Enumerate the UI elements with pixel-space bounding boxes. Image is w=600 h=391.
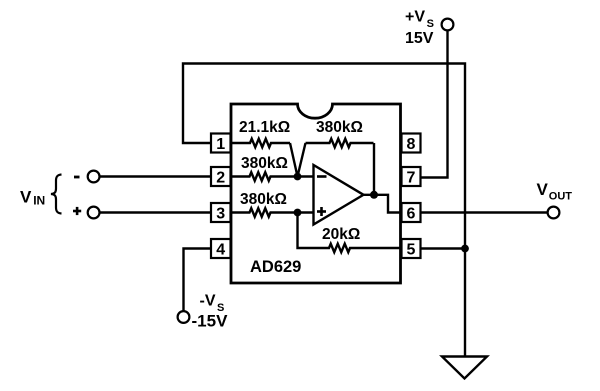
resistor 20k to pin 5 [298,213,402,253]
svg-text:IN: IN [33,193,45,207]
svg-text:3: 3 [216,205,225,222]
wire: pin 5 to ground rail [421,247,466,249]
resistor 21.1k from pin 1 [230,139,290,147]
svg-text:-15V: -15V [192,312,229,331]
pin 1 [211,134,231,153]
svg-text:4: 4 [216,241,225,258]
svg-text:V: V [20,187,32,206]
ground [442,357,487,379]
label +Vs 15V [405,9,434,47]
label Vout [537,180,573,203]
svg-text:20kΩ: 20kΩ [322,226,360,243]
pin 8 [402,134,421,153]
svg-text:7: 7 [407,169,416,186]
op-amp minus sign [317,175,327,178]
junction ground rail / pin 5 [461,245,469,253]
wire: op-amp output to pin 6 [364,195,402,213]
pin 7 [402,167,421,186]
node minus input [294,173,302,181]
svg-text:1: 1 [216,136,225,153]
terminal +Vs [442,19,454,31]
resistor 380k feedback [306,139,374,147]
terminal minus input [88,171,100,183]
label - [74,176,80,179]
node plus input [294,209,302,217]
wire: pin 6 to Vout [421,211,548,213]
svg-text:V: V [537,180,549,199]
svg-text:OUT: OUT [549,191,573,203]
svg-text:5: 5 [407,241,416,258]
resistor 380k from pin 2 [230,172,314,180]
svg-text:6: 6 [407,205,416,222]
wire: pin 4 to -Vs [184,249,212,312]
svg-text:15V: 15V [405,30,434,47]
IC body AD629 [231,104,401,283]
pin 4 [211,239,231,258]
svg-text:S: S [427,18,434,30]
wire: minus input to pin 2 [100,175,212,177]
svg-text:-V: -V [200,293,216,310]
wire: loop from pin 1 over top of IC down right side to ground [183,64,465,357]
op-amp plus sign [317,207,326,216]
pin 5 [402,239,421,258]
brace [51,175,62,214]
label -Vs -15V [192,293,229,331]
label + [73,207,81,215]
node output [370,191,378,199]
wire: diagonal feedback to minus node [298,143,306,177]
wire: diagonal 21.1k to minus node [290,143,298,177]
wire: +Vs supply down to pin 7 [421,31,448,178]
pin 2 [211,167,231,186]
svg-text:21.1kΩ: 21.1kΩ [239,119,290,136]
svg-text:2: 2 [216,169,225,186]
pin 3 [211,203,231,222]
terminal plus input [88,207,100,219]
wire: plus input to pin 3 [100,211,212,213]
terminal -Vs [178,311,190,323]
svg-text:+V: +V [405,9,425,26]
op-amp U1 [314,165,364,225]
wire: feedback down to output node [373,143,375,195]
resistor 380k from pin 3 [230,208,314,216]
svg-text:380kΩ: 380kΩ [316,119,363,136]
svg-text:8: 8 [407,136,416,153]
svg-text:380kΩ: 380kΩ [241,155,288,172]
pin 6 [402,203,421,222]
svg-text:AD629: AD629 [250,258,301,276]
terminal Vout [548,207,560,219]
svg-text:380kΩ: 380kΩ [240,191,287,208]
label Vin [20,187,45,207]
